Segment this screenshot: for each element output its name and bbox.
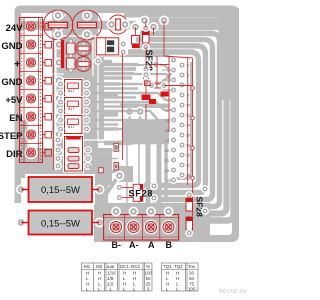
svg-text:H: H — [166, 271, 169, 276]
board right edge pour — [98, 20, 239, 242]
resistor R7 — [132, 36, 140, 45]
svg-text:0,15--5W: 0,15--5W — [41, 185, 80, 196]
dual diode box — [94, 36, 127, 65]
vertical traces below IC — [127, 144, 166, 205]
svg-text:100: 100 — [188, 287, 196, 292]
board left edge pour — [15, 24, 22, 203]
pad — [201, 207, 209, 215]
wire diagonal from resistor pad — [89, 166, 106, 177]
labels input — [0, 23, 23, 160]
resistor small C — [99, 168, 103, 173]
optocoupler U2 — [57, 78, 91, 99]
wire ring 5 — [132, 46, 206, 193]
wire ring 1 — [148, 21, 234, 221]
wide trace above IC — [120, 104, 169, 109]
table 2 — [119, 263, 152, 291]
power resistor R1 — [16, 174, 105, 205]
pad — [116, 184, 124, 192]
svg-text:23: 23 — [165, 169, 169, 173]
svg-text:20: 20 — [189, 271, 195, 276]
svg-text:TQ2: TQ2 — [174, 264, 183, 269]
IC pin numbers — [165, 59, 190, 183]
svg-text:17: 17 — [165, 139, 169, 143]
svg-text:0,15--5W: 0,15--5W — [41, 219, 80, 230]
top pads row — [140, 16, 150, 26]
resistor R5 — [54, 162, 92, 170]
optocoupler U3 — [57, 96, 91, 117]
svg-text:DC2: DC2 — [131, 264, 140, 269]
svg-text:SF28: SF28 — [129, 188, 154, 198]
wire diagonal to resistor pour — [98, 178, 117, 206]
wire — [146, 144, 151, 205]
wire — [90, 111, 174, 120]
svg-text:50: 50 — [146, 276, 152, 281]
red trace left pour — [53, 38, 55, 170]
svg-text:H: H — [133, 271, 136, 276]
svg-text:DIR: DIR — [6, 149, 23, 160]
capacitor C2 — [72, 9, 102, 41]
wire — [110, 74, 172, 80]
svg-text:ВЕСКЕ.SU: ВЕСКЕ.SU — [219, 289, 247, 294]
output terminal pads — [111, 207, 174, 217]
table 1 — [82, 263, 118, 291]
pad — [54, 136, 62, 144]
svg-text:H: H — [86, 271, 89, 276]
svg-text:TQ1: TQ1 — [163, 264, 172, 269]
wire — [90, 93, 174, 100]
capacitor C3 — [107, 15, 131, 34]
pour texture white clearances — [52, 14, 104, 170]
svg-text:H: H — [176, 271, 179, 276]
pour patch right of resistors — [94, 172, 108, 242]
diode D4 — [185, 217, 193, 237]
diode D1 — [142, 24, 150, 51]
diode D3 — [185, 191, 193, 211]
svg-text:M1: M1 — [84, 264, 91, 269]
svg-text:1/8: 1/8 — [107, 276, 114, 281]
red trace from dual diode pads — [122, 54, 124, 160]
svg-text:EN: EN — [9, 113, 22, 124]
IC U1 heatsink pad — [122, 119, 169, 144]
svg-text:DC1: DC1 — [120, 264, 129, 269]
pour patch lower left — [27, 148, 112, 185]
wide traces to middle — [100, 65, 138, 79]
IC U1 pin pads left column — [170, 56, 178, 184]
svg-text:H: H — [176, 276, 179, 281]
wire ring 3 — [140, 33, 220, 206]
wide traces fanning from pour to middle — [98, 47, 132, 143]
pad — [114, 171, 124, 181]
wire ring 4 — [136, 40, 213, 200]
input terminal lead pads — [45, 24, 52, 157]
labels output — [112, 240, 173, 250]
board top edge pour — [15, 6, 240, 31]
resistor R3 — [54, 146, 92, 154]
input terminal block X1 — [20, 18, 46, 163]
wire — [126, 144, 128, 205]
IC U1 pin pads right column — [178, 61, 186, 179]
resistor small B — [114, 163, 119, 170]
input pads on board — [54, 22, 64, 158]
svg-text:15: 15 — [165, 129, 169, 133]
svg-text:25: 25 — [167, 179, 171, 183]
wire — [104, 56, 174, 60]
svg-text:817: 817 — [68, 88, 75, 93]
pads above IC — [130, 112, 141, 121]
svg-text:A-: A- — [129, 240, 139, 250]
resistor group box — [63, 135, 84, 173]
solder jumper top — [66, 136, 80, 139]
wire — [104, 127, 118, 131]
svg-text:21: 21 — [165, 159, 169, 163]
left copper pour region — [52, 8, 104, 178]
output terminal block X2 — [104, 215, 179, 241]
capacitor C5 — [76, 57, 91, 72]
resistor R10 — [67, 39, 76, 59]
svg-text:817: 817 — [68, 106, 75, 111]
wire — [138, 144, 140, 205]
pad right of C3 — [130, 24, 140, 34]
wide trace through capacitors — [15, 21, 136, 30]
svg-text:GND: GND — [1, 77, 22, 88]
wire — [90, 129, 150, 136]
SMD resistor — [161, 92, 169, 97]
svg-text:Ток: Ток — [188, 264, 195, 269]
wire — [90, 102, 174, 110]
resistor small D — [145, 81, 151, 86]
wire — [157, 144, 162, 205]
output terminal pour — [98, 203, 210, 240]
svg-text:1/16: 1/16 — [107, 271, 116, 276]
board top band right segment — [126, 8, 232, 18]
capacitor C1 — [43, 9, 73, 41]
svg-text:+: + — [14, 59, 20, 71]
svg-text:50: 50 — [189, 276, 195, 281]
table 3 — [162, 263, 199, 291]
wire ring 2 — [144, 27, 227, 213]
wire opto rows — [104, 82, 120, 86]
wire — [164, 144, 168, 198]
svg-text:STEP: STEP — [0, 131, 23, 142]
optocoupler U4 — [57, 114, 91, 135]
small resistor R8 — [142, 65, 150, 86]
svg-text:H: H — [133, 276, 136, 281]
wire ring 6 — [128, 52, 199, 186]
thin traces resistor rows — [92, 142, 120, 166]
svg-text:+5V: +5V — [5, 95, 23, 106]
wire ring 7 short — [170, 62, 192, 179]
svg-text:24V: 24V — [6, 23, 24, 34]
svg-text:%: % — [146, 264, 150, 269]
wire — [90, 70, 174, 84]
solder jumper — [132, 45, 140, 49]
svg-text:817: 817 — [68, 124, 75, 129]
SMD resistor — [142, 95, 151, 101]
wire to C4 row — [98, 45, 112, 50]
wire — [104, 65, 170, 70]
svg-text:19: 19 — [165, 149, 169, 153]
pour strip behind block bottom — [21, 120, 28, 178]
svg-text:A: A — [148, 240, 155, 250]
pour patch below IC left — [119, 166, 133, 182]
jumper wire (red) — [61, 40, 64, 68]
pour merge top right — [219, 8, 240, 100]
nested wide traces top-right — [128, 21, 234, 221]
svg-text:GND: GND — [1, 41, 22, 52]
resistor R4 — [54, 155, 92, 163]
svg-text:100: 100 — [145, 271, 153, 276]
resistor small A — [114, 143, 119, 151]
thin traces from optos to IC pins — [90, 56, 174, 136]
wire horizontal — [101, 170, 119, 173]
wire right at 143 — [104, 141, 132, 146]
capacitor C4 — [76, 41, 91, 56]
svg-text:шаг: шаг — [107, 264, 115, 269]
power resistor R2 — [16, 211, 105, 235]
svg-text:B: B — [166, 240, 173, 250]
pad — [116, 194, 124, 202]
svg-text:H: H — [98, 276, 101, 281]
resistor R11 — [67, 58, 76, 73]
pad — [152, 61, 160, 69]
red trace nodes — [191, 86, 195, 180]
pad — [201, 185, 209, 193]
small resistor R9 — [148, 82, 168, 90]
wire — [90, 120, 160, 128]
wire — [104, 93, 118, 97]
red trace vertical right of IC — [136, 21, 193, 217]
svg-text:B-: B- — [112, 240, 122, 250]
svg-text:M2: M2 — [96, 264, 103, 269]
capacitor C1 bar redraw — [49, 22, 68, 27]
svg-text:H: H — [123, 271, 126, 276]
diode D2 — [133, 182, 158, 202]
wire — [104, 111, 118, 115]
SMD resistor — [149, 99, 156, 104]
wire — [98, 60, 112, 65]
svg-text:H: H — [98, 271, 101, 276]
pad — [142, 71, 150, 79]
red trace to D2 — [122, 186, 133, 188]
trace bundle middle — [104, 84, 140, 129]
inter-pad stubs — [162, 70, 172, 110]
svg-text:13: 13 — [165, 119, 169, 123]
